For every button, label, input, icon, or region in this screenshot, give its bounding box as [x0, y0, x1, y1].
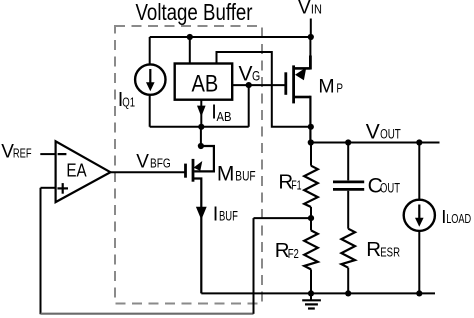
transistor MBUF source arrow: [194, 161, 203, 171]
node IAB rail dot: [198, 124, 204, 130]
node RESR ground dot: [345, 290, 351, 296]
wire VG node down to rail: [248, 85, 250, 127]
node COUT top dot: [345, 139, 351, 145]
wire EA output VBFG: [110, 171, 185, 173]
wire ILOAD bottom lead: [418, 231, 420, 294]
svg-text:V: V: [298, 0, 311, 19]
svg-text:EA: EA: [66, 161, 86, 181]
arrow IBUF: [196, 207, 207, 220]
svg-text:Voltage Buffer: Voltage Buffer: [136, 0, 253, 25]
node MBUF source dot: [198, 143, 204, 149]
svg-text:BUF: BUF: [235, 168, 255, 183]
op-amp EA triangle: [56, 141, 111, 202]
node VIN junction dot: [308, 34, 314, 40]
transistor MP gate bar: [284, 72, 287, 95]
svg-text:R: R: [366, 238, 381, 261]
wire buffer bottom rail: [150, 126, 249, 128]
arrow IAB: [197, 106, 206, 117]
voltage buffer dashed enclosure: [115, 26, 262, 304]
wire top rail VIN to IQ1: [150, 36, 311, 38]
node ILOAD top dot: [416, 139, 422, 145]
wire IQ1 top lead: [149, 37, 151, 65]
svg-text:V: V: [366, 121, 380, 144]
svg-text:F2: F2: [288, 247, 299, 261]
current source IQ1: [135, 64, 165, 94]
node MP drain / AB loop dot: [308, 124, 314, 130]
node divider midpoint dot: [308, 215, 314, 221]
svg-text:BUF: BUF: [219, 209, 238, 224]
wire IQ1 bottom lead: [149, 95, 151, 127]
node VOUT / RF1 dot: [308, 139, 314, 145]
svg-text:BFG: BFG: [150, 156, 171, 171]
svg-text:V: V: [239, 63, 253, 86]
resistor RF1: [310, 143, 312, 166]
svg-text:IN: IN: [311, 1, 322, 16]
wire ground rail: [201, 292, 435, 294]
transistor MBUF channel bar: [192, 159, 195, 182]
node RF2 ground dot: [308, 290, 314, 296]
wire VOUT rail: [311, 142, 440, 144]
wire feedback left vertical: [40, 188, 42, 314]
wire EA plus input: [41, 187, 56, 189]
svg-text:P: P: [336, 81, 343, 96]
wire ILOAD top lead: [418, 143, 420, 200]
svg-text:G: G: [252, 68, 260, 84]
node top-rail/AB junction dot: [187, 34, 193, 40]
wire COUT to RESR: [347, 191, 349, 229]
transistor MBUF gate bar: [184, 164, 187, 178]
transistor MBUF drain lead: [193, 179, 201, 294]
svg-text:ESR: ESR: [380, 245, 400, 260]
resistor RESR: [341, 229, 355, 268]
wire AB top loop to MP drain: [217, 52, 311, 127]
wire VG from AB to MP gate: [232, 84, 285, 86]
svg-text:M: M: [318, 76, 334, 98]
svg-text:AB: AB: [217, 109, 232, 124]
ground symbol: [310, 293, 312, 300]
transistor MP drain lead: [295, 96, 311, 99]
svg-text:OUT: OUT: [380, 127, 401, 142]
wire feedback bottom horizontal: [41, 313, 254, 315]
transistor MP channel bar: [292, 65, 295, 103]
wire IAB from AB bottom: [200, 100, 202, 127]
svg-text:LOAD: LOAD: [446, 212, 471, 226]
current source ILOAD: [404, 200, 435, 231]
block AB: [175, 64, 233, 100]
op-amp plus sign: [57, 187, 68, 189]
svg-text:REF: REF: [13, 146, 32, 161]
transistor MP source arrow: [295, 67, 306, 80]
svg-text:Q1: Q1: [122, 96, 135, 110]
resistor RF2: [310, 218, 312, 230]
svg-text:AB: AB: [192, 71, 219, 98]
transistor MP source lead: [295, 67, 311, 70]
wire VREF input: [40, 153, 55, 155]
svg-text:M: M: [217, 162, 235, 185]
wire VIN stub: [310, 19, 312, 38]
capacitor COUT: [333, 180, 364, 183]
node VG dot: [246, 82, 252, 88]
wire COUT top lead: [347, 143, 349, 181]
wire feedback right vertical: [253, 218, 255, 314]
transistor MBUF source loop: [194, 146, 214, 171]
svg-text:I: I: [213, 204, 219, 226]
wire AB top-left lead to rail: [189, 37, 191, 64]
wire MBUF top lead: [200, 127, 202, 146]
svg-text:V: V: [136, 152, 149, 173]
wire feedback to divider midpoint: [254, 217, 312, 219]
svg-text:OUT: OUT: [380, 180, 400, 195]
node ILOAD ground dot: [416, 290, 422, 296]
svg-text:F1: F1: [291, 179, 301, 193]
op-amp minus sign: [58, 153, 67, 155]
